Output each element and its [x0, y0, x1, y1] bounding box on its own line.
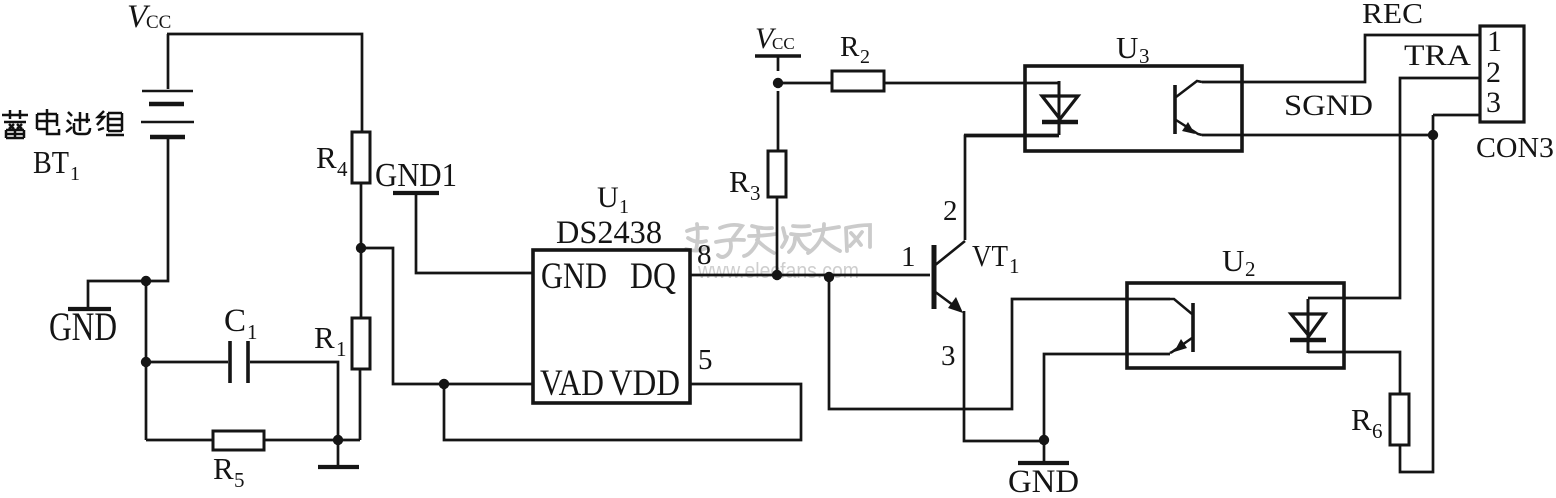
svg-text:R: R	[1351, 402, 1372, 437]
svg-text:1: 1	[70, 163, 80, 185]
svg-text:1: 1	[901, 241, 916, 273]
svg-text:GND: GND	[49, 304, 117, 349]
svg-text:4: 4	[337, 157, 348, 181]
svg-text:GND: GND	[1008, 464, 1079, 498]
svg-text:1: 1	[1009, 254, 1020, 278]
svg-text:R: R	[316, 140, 337, 175]
svg-text:GND: GND	[541, 256, 607, 297]
svg-text:2: 2	[943, 195, 958, 227]
svg-text:1: 1	[336, 337, 347, 361]
svg-text:8: 8	[697, 239, 712, 271]
svg-text:TRA: TRA	[1404, 39, 1471, 72]
svg-text:2: 2	[1245, 257, 1256, 281]
svg-text:CC: CC	[772, 34, 795, 53]
svg-text:3: 3	[941, 340, 956, 372]
svg-text:2: 2	[860, 46, 870, 68]
svg-text:CON3: CON3	[1476, 132, 1554, 164]
svg-text:1: 1	[1487, 25, 1502, 58]
svg-text:R: R	[840, 31, 860, 63]
svg-text:VDD: VDD	[609, 363, 680, 404]
svg-text:3: 3	[1486, 86, 1501, 119]
svg-text:3: 3	[1139, 44, 1150, 68]
svg-text:REC: REC	[1362, 0, 1423, 30]
svg-text:5: 5	[698, 344, 713, 376]
svg-text:SGND: SGND	[1284, 89, 1373, 122]
svg-text:3: 3	[750, 181, 761, 205]
svg-text:CC: CC	[146, 12, 171, 33]
svg-text:GND1: GND1	[375, 157, 457, 194]
svg-text:DQ: DQ	[630, 256, 676, 297]
svg-text:U: U	[1116, 30, 1138, 65]
svg-text:1: 1	[247, 320, 258, 344]
svg-text:U: U	[597, 181, 619, 214]
svg-text:VAD: VAD	[540, 363, 604, 404]
svg-text:R: R	[729, 164, 750, 199]
svg-text:R: R	[213, 451, 234, 486]
svg-text:R: R	[314, 320, 335, 355]
svg-text:BT: BT	[33, 144, 69, 180]
svg-text:U: U	[1222, 243, 1244, 278]
svg-text:5: 5	[234, 468, 245, 492]
svg-text:2: 2	[1486, 56, 1501, 89]
svg-text:6: 6	[1372, 419, 1383, 443]
svg-text:C: C	[224, 303, 246, 339]
svg-text:DS2438: DS2438	[556, 215, 662, 251]
svg-text:VT: VT	[972, 238, 1008, 273]
